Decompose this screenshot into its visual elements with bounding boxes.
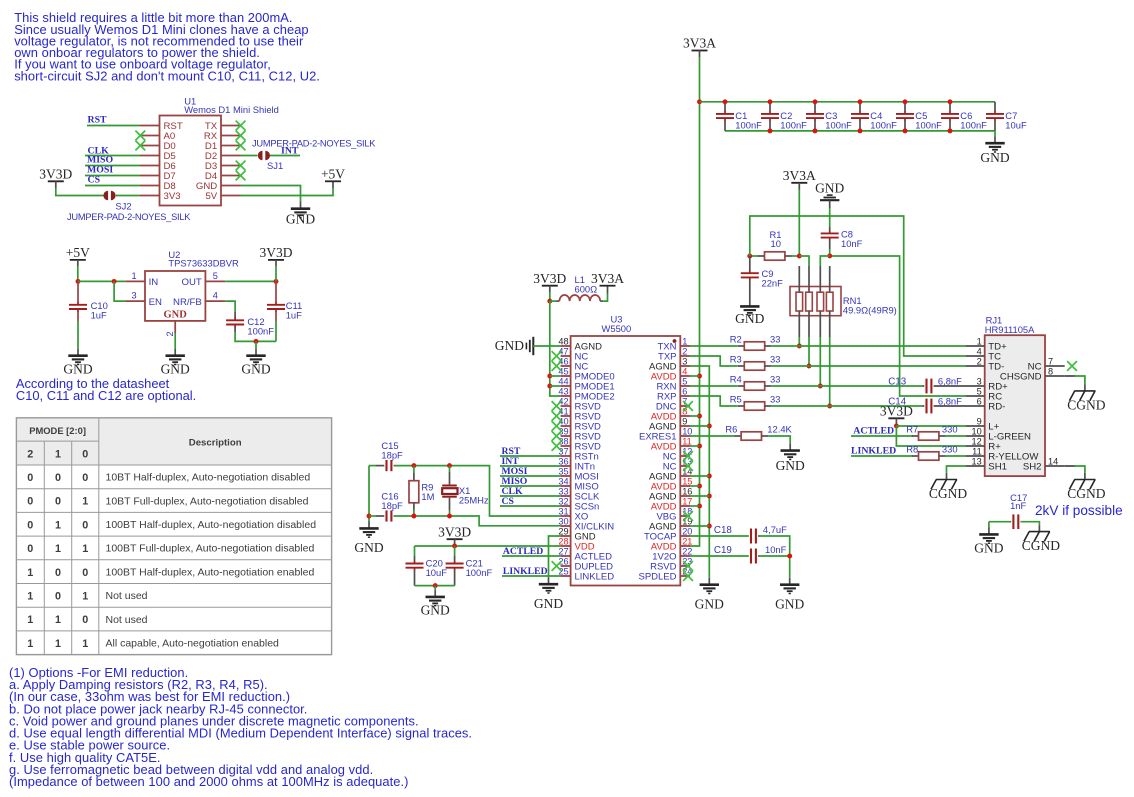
capacitor C12 100nF (226, 312, 244, 332)
IC U2 TPS73633DBVR (125, 249, 239, 337)
ground GND (C8, inverted) (815, 180, 844, 200)
wire AVDD11 (690, 445, 700, 447)
crystal X1 25MHz (442, 466, 489, 516)
svg-text:IN: IN (149, 277, 159, 288)
svg-text:1: 1 (27, 591, 33, 603)
svg-text:+5V: +5V (66, 245, 90, 260)
ground GND (crystal) (354, 528, 383, 555)
svg-text:10nF: 10nF (841, 238, 863, 249)
junction (367, 514, 372, 519)
junction (948, 99, 953, 104)
svg-text:25MHz: 25MHz (459, 495, 489, 506)
svg-text:SH1: SH1 (988, 462, 1007, 473)
junction (818, 384, 823, 389)
junction (411, 514, 416, 519)
svg-text:5V: 5V (205, 191, 217, 202)
svg-text:3V3D: 3V3D (260, 245, 293, 260)
junction (827, 404, 832, 409)
svg-text:RST: RST (88, 114, 108, 125)
svg-text:R4: R4 (730, 373, 742, 384)
svg-text:C13: C13 (888, 376, 907, 387)
junction (697, 504, 702, 509)
svg-text:3V3A: 3V3A (591, 271, 624, 286)
junction (697, 99, 702, 104)
svg-text:CGND: CGND (1022, 538, 1061, 553)
capacitor C8 10nF (821, 227, 839, 249)
ground GND (pin48, sideways) (495, 337, 534, 355)
svg-text:1nF: 1nF (1010, 500, 1026, 511)
ground GND (C9) (735, 306, 764, 325)
chassis ground CGND (C17) (1022, 532, 1061, 553)
svg-text:1: 1 (55, 543, 61, 555)
wire (275, 321, 277, 341)
wire C8 to RX-term node (829, 249, 831, 256)
svg-text:1M: 1M (421, 491, 434, 502)
svg-text:18pF: 18pF (381, 500, 403, 511)
svg-text:22nF: 22nF (762, 278, 784, 289)
wire C19 to GND (760, 556, 790, 578)
IC U1 Wemos D1 Mini Shield (135, 95, 278, 205)
svg-text:GND: GND (286, 211, 315, 226)
svg-text:ACTLED: ACTLED (503, 546, 543, 557)
inductor L1 600ohm (550, 274, 603, 301)
jumper SJ1 (258, 151, 270, 160)
power 3V3A (top) (683, 36, 716, 51)
svg-text:1: 1 (27, 614, 33, 626)
wire C18 to GND node (760, 536, 790, 556)
junction (447, 463, 452, 468)
svg-text:short-circuit SJ2 and don't mo: short-circuit SJ2 and don't mount C10, C… (14, 68, 320, 83)
wire (549, 292, 551, 301)
junction (547, 384, 552, 389)
wire TXP to R3 (690, 356, 738, 366)
svg-text:10nF: 10nF (765, 544, 787, 555)
chassis ground CGND (CHSGND) (1067, 391, 1106, 412)
svg-text:GND: GND (735, 311, 764, 326)
svg-text:JUMPER-PAD-2-NOYES_SILK: JUMPER-PAD-2-NOYES_SILK (252, 139, 376, 149)
svg-text:10BT Half-duplex, Auto-negotia: 10BT Half-duplex, Auto-negotiation disab… (106, 472, 311, 484)
svg-text:100nF: 100nF (780, 120, 807, 131)
junction (807, 364, 812, 369)
junction (411, 463, 416, 468)
svg-text:HR911105A: HR911105A (985, 324, 1035, 335)
wire (270, 155, 300, 157)
svg-text:100nF: 100nF (247, 325, 274, 336)
svg-text:(Impedance of between 100 and: (Impedance of between 100 and 2000 ohms … (9, 774, 408, 789)
capacitor C3 100nF (806, 102, 852, 131)
wire R4 to C13 (771, 385, 922, 387)
capacitor C10 1uF (69, 302, 87, 313)
wire (56, 188, 104, 196)
wire AGND19 (690, 525, 709, 527)
capacitor C21 100nF (454, 546, 456, 556)
svg-text:1: 1 (977, 337, 982, 347)
svg-text:C10, C11 and C12 are optional.: C10, C11 and C12 are optional. (16, 388, 196, 403)
svg-text:10uF: 10uF (426, 567, 448, 578)
svg-text:3: 3 (682, 357, 687, 367)
svg-text:1uF: 1uF (286, 310, 302, 321)
wire crystal top net (369, 465, 376, 467)
wire GND to C8 (829, 208, 831, 227)
capacitor C18 4,7uF (749, 529, 760, 544)
resistor R3 33 (738, 362, 772, 370)
svg-text:330: 330 (942, 423, 958, 434)
svg-text:14: 14 (1048, 457, 1058, 467)
svg-text:2: 2 (27, 449, 33, 461)
junction (797, 254, 802, 259)
svg-text:1: 1 (82, 543, 88, 555)
wire (603, 294, 607, 302)
wire RN1-d to RD- line (829, 337, 831, 406)
svg-text:5: 5 (977, 387, 982, 397)
svg-text:SH2: SH2 (1023, 462, 1042, 473)
power 3V3D (VDD) (438, 524, 471, 539)
svg-text:10BT Full-duplex, Auto-negotia: 10BT Full-duplex, Auto-negotiation disab… (106, 495, 309, 507)
ground GND (U2) (161, 356, 190, 377)
power +5V (U1) (321, 166, 345, 181)
svg-text:0: 0 (55, 567, 61, 579)
wire (85, 165, 140, 167)
wire SH2 to CGND (1065, 465, 1075, 467)
ground GND (cap bank) (980, 143, 1009, 165)
svg-text:2kV if possible: 2kV if possible (1035, 503, 1123, 518)
svg-text:OUT: OUT (182, 277, 202, 288)
capacitor C20 10uF (414, 546, 416, 556)
resistor network RN1 49.9ohm (790, 266, 897, 337)
wire TX-term to RN1-b (799, 256, 809, 266)
svg-text:0: 0 (55, 496, 61, 508)
svg-text:10: 10 (971, 427, 981, 437)
wire AVDD15 (690, 485, 700, 487)
capacitor C9 22nF (741, 256, 759, 300)
svg-text:6,8nF: 6,8nF (938, 375, 962, 386)
svg-text:R6: R6 (725, 423, 737, 434)
svg-text:SPDLED: SPDLED (638, 572, 676, 583)
junction (787, 554, 792, 559)
wire (77, 321, 79, 349)
svg-text:GND: GND (695, 596, 724, 611)
svg-text:LINKLED: LINKLED (503, 566, 548, 577)
wire R8 to R-YELLOW (945, 455, 966, 457)
jumper SJ2 (103, 191, 115, 200)
svg-text:33: 33 (770, 353, 780, 364)
junction (707, 524, 712, 529)
svg-text:6,8nF: 6,8nF (938, 395, 962, 406)
junction (707, 424, 712, 429)
svg-text:2: 2 (977, 357, 982, 367)
wire EXRES1 to R6 (690, 435, 735, 437)
svg-text:CGND: CGND (1067, 486, 1106, 501)
capacitor C1 100nF (716, 102, 762, 131)
svg-text:0: 0 (27, 519, 33, 531)
svg-text:0: 0 (82, 472, 88, 484)
svg-text:W5500: W5500 (602, 323, 632, 334)
svg-text:1: 1 (55, 638, 61, 650)
svg-text:13: 13 (971, 457, 981, 467)
svg-text:R5: R5 (730, 393, 742, 404)
junction (858, 99, 863, 104)
wire AVDD4 (690, 375, 700, 377)
junction (697, 444, 702, 449)
resistor R6 12.4K (735, 432, 769, 440)
capacitor C7 10uF (986, 102, 1027, 131)
wire (85, 155, 140, 157)
wire PMODE0 (550, 375, 561, 377)
svg-text:GND: GND (495, 338, 524, 353)
resistor R5 33 (738, 402, 772, 410)
svg-text:10: 10 (771, 238, 781, 249)
ground GND (R6) (776, 451, 805, 473)
chassis ground CGND (SH1) (929, 480, 968, 501)
junction (452, 544, 457, 549)
wire TXN to R2 (690, 345, 738, 347)
junction (707, 474, 712, 479)
svg-text:C18: C18 (714, 525, 733, 536)
junction (697, 484, 702, 489)
wire C17 to CGND (1021, 522, 1039, 526)
svg-text:TPS73633DBVR: TPS73633DBVR (168, 258, 239, 269)
power 3V3A (L1) (591, 271, 624, 286)
svg-text:GND: GND (776, 458, 805, 473)
junction (858, 128, 863, 133)
wire LINKLED to R8 (851, 455, 913, 457)
svg-text:9: 9 (977, 417, 982, 427)
junction (747, 254, 752, 259)
svg-text:GND: GND (421, 603, 450, 618)
svg-text:LINKLED: LINKLED (575, 572, 615, 583)
svg-text:EN: EN (149, 297, 162, 308)
wire AGND16 (690, 495, 709, 497)
ground GND (U1) (286, 209, 315, 227)
svg-text:4: 4 (213, 291, 218, 301)
svg-text:CGND: CGND (1067, 397, 1106, 412)
svg-text:1: 1 (55, 614, 61, 626)
junction (112, 279, 117, 284)
chassis ground CGND (SH2) (1067, 480, 1106, 501)
svg-text:Not used: Not used (106, 590, 148, 602)
svg-text:1: 1 (55, 449, 61, 461)
svg-text:3V3: 3V3 (164, 191, 181, 202)
svg-text:GND: GND (980, 150, 1009, 165)
svg-text:6: 6 (977, 397, 982, 407)
wire (275, 266, 277, 281)
svg-text:3V3D: 3V3D (39, 166, 72, 181)
power 3V3D (L1) (533, 271, 566, 286)
svg-text:11: 11 (972, 447, 982, 457)
wire RX-term node to RC (830, 256, 966, 396)
svg-text:GND: GND (164, 310, 188, 321)
svg-text:2: 2 (165, 331, 175, 336)
wire cap bank top (700, 101, 996, 103)
junction (697, 414, 702, 419)
ground GND (C17) (974, 534, 1003, 555)
wire VDD (415, 545, 561, 547)
junction (827, 253, 832, 258)
svg-text:0: 0 (82, 519, 88, 531)
ground GND (C10) (63, 356, 92, 377)
svg-text:12: 12 (971, 437, 981, 447)
wire AGND48 (533, 345, 561, 347)
svg-text:100nF: 100nF (960, 120, 987, 131)
svg-text:GND: GND (534, 596, 563, 611)
svg-text:4: 4 (682, 367, 687, 377)
wire (241, 155, 258, 157)
svg-text:LINKLED: LINKLED (851, 446, 896, 457)
wire AGND9 (690, 425, 709, 427)
junction (254, 339, 259, 344)
capacitor C4 100nF (851, 102, 897, 131)
resistor R7 330 (912, 432, 946, 440)
wire 3V3A to R1 node (798, 190, 800, 257)
wire (895, 424, 897, 427)
wire R6 to GND (768, 436, 790, 444)
wire R5 to C14 (771, 405, 922, 407)
IC U3 W5500 (552, 314, 693, 586)
svg-text:3V3D: 3V3D (533, 271, 566, 286)
svg-text:R3: R3 (730, 353, 742, 364)
wire C15 to XO (395, 466, 561, 516)
wire C7 to GND (994, 131, 996, 137)
wire C20/C21 to GND (415, 585, 455, 587)
wire AVDD8 (690, 415, 700, 417)
connector RJ1 HR911105A (966, 314, 1077, 476)
resistor R2 33 (738, 342, 772, 350)
capacitor C5 100nF (896, 102, 942, 131)
power 3V3D (U2) (260, 245, 293, 260)
svg-text:8: 8 (1048, 367, 1053, 377)
svg-text:33: 33 (770, 393, 780, 404)
svg-text:1: 1 (55, 519, 61, 531)
resistor R4 33 (738, 382, 772, 390)
wire (502, 555, 561, 557)
svg-text:R2: R2 (730, 333, 742, 344)
capacitor C19 10nF (749, 549, 760, 564)
wire (87, 125, 140, 127)
capacitor C6 100nF (941, 102, 987, 131)
junction (813, 99, 818, 104)
svg-text:GND: GND (354, 540, 383, 555)
wire R2 to TD+ (771, 345, 966, 347)
svg-text:Wemos D1 Mini Shield: Wemos D1 Mini Shield (184, 104, 279, 115)
svg-text:1: 1 (131, 271, 136, 281)
svg-text:1: 1 (82, 496, 88, 508)
junction (274, 279, 279, 284)
wire RN1-b to TD- line (808, 337, 810, 366)
svg-text:GND: GND (815, 180, 844, 195)
wire CHSGND to CGND (1065, 375, 1075, 377)
wire U2 pin2 to GND (174, 333, 176, 349)
svg-text:GND: GND (241, 362, 270, 377)
ground GND (pin29) (534, 584, 563, 611)
resistor R8 330 (912, 452, 946, 460)
svg-text:100BT Half-duplex, Auto-negoti: 100BT Half-duplex, Auto-negotiation disa… (106, 519, 317, 531)
capacitor C2 100nF (761, 102, 807, 131)
wire (116, 195, 140, 197)
table PMODE (16, 418, 331, 655)
svg-text:Not used: Not used (106, 614, 148, 626)
svg-text:3V3A: 3V3A (683, 36, 716, 51)
wire RN1-c to RD+ line (819, 337, 821, 386)
ground GND (C20/C21) (421, 597, 450, 618)
junction (707, 494, 712, 499)
resistor R9 1M (409, 466, 435, 516)
svg-text:GND: GND (974, 540, 1003, 555)
capacitor C13 6,8nF (923, 379, 967, 394)
svg-text:0: 0 (82, 614, 88, 626)
svg-text:NR/FB: NR/FB (173, 297, 202, 308)
capacitor C14 6,8nF (923, 399, 967, 414)
junction (433, 583, 438, 588)
svg-text:All capable, Auto-negotiation: All capable, Auto-negotiation enabled (106, 638, 280, 650)
junction (768, 128, 773, 133)
junction (903, 99, 908, 104)
note: EMI reduction text (9, 665, 472, 789)
svg-text:0: 0 (82, 567, 88, 579)
wire AGND14 (690, 475, 709, 477)
wire PMODE1 (550, 385, 561, 387)
wire 3V3A rail (AVDD) (690, 57, 700, 546)
junction (768, 99, 773, 104)
svg-text:100BT Half-duplex, Auto-negoti: 100BT Half-duplex, Auto-negotiation enab… (106, 566, 315, 578)
wire R1 left loop to TC (750, 216, 966, 356)
svg-text:100nF: 100nF (825, 120, 852, 131)
svg-text:4: 4 (977, 347, 982, 357)
svg-text:21: 21 (682, 537, 692, 547)
wire GND pin29 (549, 536, 561, 577)
svg-text:+5V: +5V (321, 166, 345, 181)
junction (697, 374, 702, 379)
svg-text:CHSGND: CHSGND (1000, 372, 1042, 383)
svg-text:0: 0 (82, 449, 88, 461)
svg-text:RD-: RD- (988, 402, 1005, 413)
svg-text:CS: CS (88, 174, 101, 185)
ground GND (C12) (241, 356, 270, 377)
junction (547, 299, 552, 304)
svg-text:100BT Full-duplex, Auto-negoti: 100BT Full-duplex, Auto-negotiation disa… (106, 543, 315, 555)
svg-text:12.4K: 12.4K (767, 423, 792, 434)
wire (77, 266, 79, 281)
svg-text:100nF: 100nF (735, 120, 762, 131)
power 3V3A (termination) (783, 168, 816, 183)
capacitor C16 18pF (376, 510, 395, 521)
wire R7 to L-GREEN (945, 435, 966, 437)
svg-text:49.9Ω(49R9): 49.9Ω(49R9) (843, 305, 897, 316)
svg-text:100nF: 100nF (915, 120, 942, 131)
svg-text:3: 3 (131, 291, 136, 301)
svg-text:1: 1 (682, 337, 687, 347)
junction (547, 374, 552, 379)
wire AGND rail (690, 366, 709, 578)
wire NR/FB to C12 (225, 301, 235, 312)
junction (948, 128, 953, 133)
ground GND (AGND rail) (695, 585, 724, 612)
svg-text:0: 0 (27, 543, 33, 555)
svg-text:7: 7 (1048, 357, 1053, 367)
svg-text:1: 1 (82, 638, 88, 650)
svg-text:1: 1 (27, 638, 33, 650)
wire 1V2O to C19 (690, 555, 749, 557)
svg-text:6: 6 (682, 387, 687, 397)
wire RN1-a to TD+ line (798, 337, 800, 346)
wire SH1 to CGND (947, 466, 967, 473)
svg-text:3V3A: 3V3A (783, 168, 816, 183)
wire (85, 185, 140, 187)
svg-text:ACTLED: ACTLED (853, 426, 894, 437)
svg-text:5: 5 (213, 271, 218, 281)
capacitor C15 18pF (376, 460, 395, 471)
svg-text:GND: GND (63, 362, 92, 377)
svg-text:0: 0 (55, 472, 61, 484)
